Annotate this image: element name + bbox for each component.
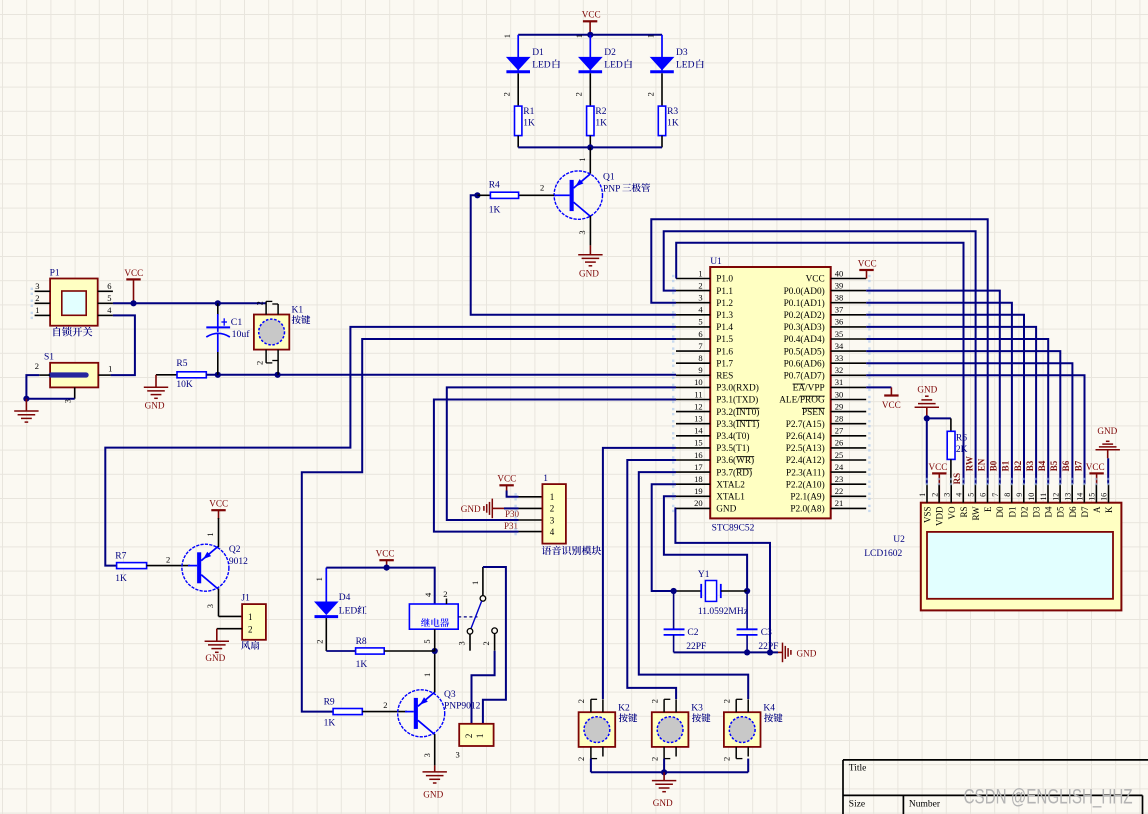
svg-text:2: 2 xyxy=(314,640,324,644)
junction xyxy=(215,300,221,306)
power VCC (U1 pin40) xyxy=(859,269,873,271)
pin 13 LCD (D6) xyxy=(1071,484,1073,502)
junction xyxy=(744,588,750,594)
resistor R2 1K xyxy=(589,73,591,106)
svg-text:16: 16 xyxy=(1100,493,1109,501)
svg-text:1: 1 xyxy=(475,734,485,739)
svg-text:P1.5: P1.5 xyxy=(716,335,733,345)
svg-text:P0.6(AD6): P0.6(AD6) xyxy=(784,358,825,369)
svg-text:40: 40 xyxy=(835,268,844,278)
svg-text:11: 11 xyxy=(694,389,702,399)
resistor R5 10K xyxy=(156,374,177,376)
pin 14 U1 (P3.4(T0)) xyxy=(676,435,710,437)
svg-text:Q3: Q3 xyxy=(444,690,456,700)
svg-text:P1.6: P1.6 xyxy=(716,347,733,357)
svg-text:GND: GND xyxy=(1097,426,1117,436)
wire XTAL1 to Y1 xyxy=(664,496,747,591)
svg-text:P0.2(AD2): P0.2(AD2) xyxy=(784,310,825,321)
svg-text:15: 15 xyxy=(1088,493,1097,501)
resistor R6 2K xyxy=(927,417,951,419)
svg-text:2: 2 xyxy=(721,757,731,761)
capacitor C1 10uf xyxy=(217,303,219,315)
svg-text:31: 31 xyxy=(835,377,844,387)
svg-text:5: 5 xyxy=(107,293,111,303)
svg-text:RS: RS xyxy=(952,473,962,485)
svg-text:24: 24 xyxy=(835,462,844,472)
svg-text:PSEN: PSEN xyxy=(802,408,825,418)
svg-text:D6: D6 xyxy=(1068,506,1078,517)
power VCC (LCD VDD) xyxy=(932,472,946,474)
svg-text:32: 32 xyxy=(835,365,844,375)
pin 3 U1 (P1.2) xyxy=(676,302,710,304)
svg-text:P3.0(RXD): P3.0(RXD) xyxy=(716,383,759,394)
svg-text:1: 1 xyxy=(108,363,112,373)
svg-text:1: 1 xyxy=(574,34,584,38)
resistor R4 1K xyxy=(474,192,480,198)
svg-text:XTAL2: XTAL2 xyxy=(716,480,745,490)
svg-text:2: 2 xyxy=(649,757,659,761)
junction xyxy=(130,300,136,306)
svg-text:1K: 1K xyxy=(667,119,679,129)
wire GND to LCD K xyxy=(1107,458,1109,484)
pin 1/4 P1 xyxy=(35,314,51,316)
svg-text:7: 7 xyxy=(698,341,702,351)
pin 1 S1 xyxy=(98,374,110,376)
svg-text:VO: VO xyxy=(947,506,957,519)
ground GND (R5) xyxy=(155,375,157,387)
svg-text:1K: 1K xyxy=(489,206,501,216)
svg-text:D2: D2 xyxy=(1019,507,1029,518)
svg-text:1: 1 xyxy=(314,577,324,581)
svg-text:LED-: LED- xyxy=(339,607,361,617)
wire U1 pin5 to R7 xyxy=(105,327,676,566)
pin 10 U1 (P3.0(RXD)) xyxy=(676,386,710,388)
svg-text:P2.3(A11): P2.3(A11) xyxy=(786,467,825,478)
svg-text:1K: 1K xyxy=(356,660,368,670)
connector U3 voice recognition module xyxy=(542,484,566,543)
pin 17 U1 (P3.7(RD)) xyxy=(676,471,710,473)
pins K3 top xyxy=(663,699,665,712)
svg-text:10uf: 10uf xyxy=(232,329,251,340)
svg-text:3: 3 xyxy=(456,750,460,760)
wire P1.0 to LCD RS xyxy=(676,243,963,484)
svg-text:P0.7(AD7): P0.7(AD7) xyxy=(784,371,825,382)
svg-text:34: 34 xyxy=(835,341,844,351)
pin 31 U1 (EA/VPP) xyxy=(831,386,867,388)
wire P0.6 to LCD D6 xyxy=(866,363,1072,484)
wire VCC net P1.5 xyxy=(113,302,266,304)
wire relay VCC rail xyxy=(326,568,434,604)
svg-text:3: 3 xyxy=(942,493,951,497)
svg-text:9012: 9012 xyxy=(229,557,248,567)
pin 25 U1 (P2.4(A12)) xyxy=(831,459,867,461)
pin 28 U1 (P2.7(A15)) xyxy=(831,423,867,425)
svg-text:10: 10 xyxy=(1027,493,1036,501)
svg-text:VCC: VCC xyxy=(124,268,143,278)
svg-text:3: 3 xyxy=(205,604,215,608)
svg-text:RW: RW xyxy=(971,506,981,521)
svg-text:Title: Title xyxy=(849,764,867,774)
svg-text:C1: C1 xyxy=(231,317,243,328)
pin 2 J1 wire xyxy=(217,628,242,630)
wire P0.7 to LCD D7 xyxy=(866,375,1084,484)
svg-text:2: 2 xyxy=(248,624,253,634)
pin 10 LCD (D3) xyxy=(1035,484,1037,502)
svg-text:P2.1(A9): P2.1(A9) xyxy=(790,492,824,503)
svg-text:U1: U1 xyxy=(710,257,722,267)
svg-text:D3: D3 xyxy=(1032,506,1042,517)
pin 16 LCD (K) xyxy=(1108,484,1110,502)
button K3 xyxy=(652,712,689,747)
wire P0.4 to LCD D4 xyxy=(866,339,1048,484)
wire U1 pin17 to K4 xyxy=(639,472,748,699)
svg-text:B2: B2 xyxy=(1013,460,1023,471)
pin 18 U1 (XTAL2) xyxy=(676,483,710,485)
svg-text:12: 12 xyxy=(1051,493,1060,501)
wire P0.1 to LCD D1 xyxy=(866,303,1012,485)
pin 24 U1 (P2.3(A11)) xyxy=(831,471,867,473)
svg-text:P1.0: P1.0 xyxy=(716,275,733,285)
wire Q2 to J1 xyxy=(219,615,243,617)
svg-text:RS: RS xyxy=(959,507,969,518)
svg-text:S1: S1 xyxy=(44,352,54,362)
svg-text:2: 2 xyxy=(721,699,731,703)
svg-text:B3: B3 xyxy=(1025,460,1035,471)
svg-text:3: 3 xyxy=(550,515,555,525)
capacitor C3 22PF xyxy=(746,591,748,629)
svg-text:29: 29 xyxy=(835,401,844,411)
svg-text:P0.3(AD3): P0.3(AD3) xyxy=(784,322,825,333)
svg-text:VCC: VCC xyxy=(582,10,601,20)
svg-text:A: A xyxy=(1092,506,1102,513)
svg-text:J1: J1 xyxy=(241,593,250,603)
svg-text:1: 1 xyxy=(550,492,555,502)
svg-text:2: 2 xyxy=(930,493,939,497)
svg-text:1: 1 xyxy=(646,34,656,38)
svg-text:18: 18 xyxy=(694,474,703,484)
svg-text:EN: EN xyxy=(977,458,987,471)
svg-text:P3.5(T1): P3.5(T1) xyxy=(716,443,749,454)
capacitor C2 22PF xyxy=(673,591,675,629)
svg-text:P1: P1 xyxy=(50,269,60,279)
ground GND (Q1) xyxy=(589,245,591,254)
diode D3 LED xyxy=(661,35,663,71)
svg-text:P0.1(AD1): P0.1(AD1) xyxy=(784,298,825,309)
svg-text:P3.7(RD): P3.7(RD) xyxy=(716,467,752,478)
pin 15 U1 (P3.5(T1)) xyxy=(676,447,710,449)
svg-text:P2.6(A14): P2.6(A14) xyxy=(786,431,825,442)
pin 22 U1 (P2.1(A9)) xyxy=(831,495,867,497)
svg-text:STC89C52: STC89C52 xyxy=(712,524,755,534)
svg-text:2: 2 xyxy=(645,92,655,96)
relay switch contact 2 xyxy=(492,628,498,634)
svg-text:4: 4 xyxy=(955,493,964,497)
svg-text:P1.7: P1.7 xyxy=(716,359,733,369)
svg-text:P3.4(T0): P3.4(T0) xyxy=(716,431,749,442)
wire P1 pin4 to S1 pin1 xyxy=(111,315,135,375)
svg-text:VCC: VCC xyxy=(1086,462,1105,472)
svg-text:2: 2 xyxy=(502,92,512,96)
svg-text:R1: R1 xyxy=(523,107,534,117)
svg-text:K: K xyxy=(1104,506,1114,513)
wire S1 pin2 to ground xyxy=(26,375,74,399)
svg-text:23: 23 xyxy=(835,474,844,484)
svg-text:VCC: VCC xyxy=(209,499,228,509)
svg-text:2: 2 xyxy=(35,293,39,303)
pin 3 LCD (VO) xyxy=(950,484,952,502)
power VCC (EA) xyxy=(890,387,892,395)
svg-text:Q1: Q1 xyxy=(603,172,615,182)
wire U1 pin6 to R9 xyxy=(302,339,676,712)
transistor Q1 PNP xyxy=(589,147,591,173)
svg-text:PNP: PNP xyxy=(603,184,620,194)
svg-text:D5: D5 xyxy=(1056,506,1066,517)
pin 6 U1 (P1.5) xyxy=(676,338,710,340)
pins K4 bottom xyxy=(735,747,737,759)
button K4 xyxy=(724,712,761,747)
junction xyxy=(671,588,677,594)
svg-text:1K: 1K xyxy=(595,119,607,129)
svg-text:D1: D1 xyxy=(1007,507,1017,518)
svg-text:GND: GND xyxy=(917,385,937,395)
pin 1 U1 (P1.0) xyxy=(676,278,710,280)
pin 12 LCD (D5) xyxy=(1059,484,1061,502)
wire R4 to P1.3 xyxy=(471,195,676,314)
svg-text:LED: LED xyxy=(676,61,695,71)
svg-text:14: 14 xyxy=(694,426,703,436)
svg-text:LED: LED xyxy=(604,61,623,71)
pin 3 Q2 xyxy=(218,589,220,617)
svg-text:P2.0(A8): P2.0(A8) xyxy=(790,504,824,515)
svg-text:21: 21 xyxy=(835,498,844,508)
wire K3 bottom to rail xyxy=(663,759,665,773)
pin 32 U1 (P0.7(AD7)) xyxy=(831,374,867,376)
relay switch arm xyxy=(471,601,482,629)
svg-text:P1.4: P1.4 xyxy=(716,323,733,333)
svg-text:16: 16 xyxy=(694,450,703,460)
pin 5 relay xyxy=(434,629,436,651)
svg-text:R8: R8 xyxy=(356,637,367,647)
svg-text:9: 9 xyxy=(1015,493,1024,497)
svg-text:28: 28 xyxy=(835,414,844,424)
junction xyxy=(587,32,593,38)
svg-text:P3.1(TXD): P3.1(TXD) xyxy=(716,395,758,406)
svg-text:4: 4 xyxy=(550,527,555,537)
svg-text:P0.5(AD5): P0.5(AD5) xyxy=(784,346,825,357)
title block xyxy=(843,759,1148,761)
power VCC (LCD A) xyxy=(1089,472,1103,474)
svg-text:8: 8 xyxy=(698,353,702,363)
svg-text:VDD: VDD xyxy=(935,506,945,526)
svg-text:U2: U2 xyxy=(893,535,905,545)
resistor R8 1K xyxy=(326,650,355,652)
svg-text:1: 1 xyxy=(470,581,480,585)
svg-text:2: 2 xyxy=(35,361,39,371)
pin 8 LCD (D1) xyxy=(1011,484,1013,502)
svg-text:35: 35 xyxy=(835,329,844,339)
junction xyxy=(924,415,930,421)
svg-text:1: 1 xyxy=(502,34,512,38)
svg-text:1: 1 xyxy=(543,474,548,484)
svg-text:P3.6(WR): P3.6(WR) xyxy=(716,455,754,466)
pin 39 U1 (P0.0(AD0)) xyxy=(831,290,867,292)
svg-text:VCC: VCC xyxy=(806,275,825,285)
svg-text:GND: GND xyxy=(716,505,736,515)
svg-text:14: 14 xyxy=(1076,493,1085,501)
svg-text:VSS: VSS xyxy=(923,507,933,524)
resistor R9 1K xyxy=(333,709,362,715)
wire button ground rail xyxy=(591,771,748,773)
svg-text:P2.2(A10): P2.2(A10) xyxy=(786,479,825,490)
svg-text:PNP9012: PNP9012 xyxy=(444,702,481,712)
wire GND to VSS xyxy=(926,418,928,484)
wire P1.1 to LCD RW xyxy=(664,231,976,484)
relay switch pole pin1 xyxy=(480,596,486,602)
pin 30 U1 (ALE/PROG) xyxy=(831,399,867,401)
pin 13 U1 (P3.3(INT1)) xyxy=(676,423,710,425)
relay coil xyxy=(409,604,458,629)
svg-text:6: 6 xyxy=(698,329,702,339)
svg-text:4: 4 xyxy=(423,592,433,597)
svg-text:ALE/PROG: ALE/PROG xyxy=(779,396,825,406)
pin 5 U1 (P1.4) xyxy=(676,326,710,328)
svg-text:4: 4 xyxy=(698,305,703,315)
resistor R1 1K xyxy=(517,73,519,106)
svg-text:GND: GND xyxy=(461,504,481,514)
svg-text:2: 2 xyxy=(576,699,586,703)
pins K4 top xyxy=(735,699,737,712)
wire P0.5 to LCD D5 xyxy=(866,351,1060,484)
svg-text:RES: RES xyxy=(716,372,733,382)
power VCC (LED rail) xyxy=(583,20,597,22)
wire P1.2 to LCD EN xyxy=(651,219,987,484)
junction xyxy=(215,372,221,378)
relay switch contact 3 xyxy=(467,629,473,635)
svg-text:13: 13 xyxy=(1063,493,1072,501)
pin 14 LCD (D7) xyxy=(1083,484,1085,502)
relay dashed link xyxy=(458,616,477,618)
junction xyxy=(767,649,773,655)
pin 2 relay xyxy=(446,599,448,605)
junction xyxy=(587,144,593,150)
power VCC (module) xyxy=(499,484,513,486)
svg-text:26: 26 xyxy=(835,438,844,448)
wire RES net (R5/C1/K1 to U1 pin9) xyxy=(206,374,676,376)
svg-text:P30: P30 xyxy=(505,509,520,519)
ground GND (buttons) xyxy=(663,772,665,780)
power VCC (relay rail) xyxy=(379,559,393,561)
svg-text:K1: K1 xyxy=(292,306,304,316)
junction xyxy=(432,648,438,654)
connector J1 (fan) xyxy=(242,604,266,640)
svg-text:1K: 1K xyxy=(115,574,127,584)
pin 11 LCD (D4) xyxy=(1047,484,1049,502)
wire XTAL2 to Y1 xyxy=(652,484,676,591)
svg-text:11: 11 xyxy=(1039,493,1048,501)
button K1 xyxy=(254,315,289,350)
svg-text:B6: B6 xyxy=(1061,460,1071,471)
pin 20 U1 (GND) xyxy=(676,507,710,509)
pin 6 LCD (E) xyxy=(987,484,989,502)
svg-text:2: 2 xyxy=(481,641,491,645)
pin 2 S1 xyxy=(39,374,50,376)
wire K4 bottom to rail xyxy=(747,759,749,773)
svg-text:LCD1602: LCD1602 xyxy=(864,549,902,559)
svg-text:2: 2 xyxy=(464,734,474,739)
svg-text:P1.3: P1.3 xyxy=(716,311,733,321)
svg-text:CSDN @ENGLISH_HHZ: CSDN @ENGLISH_HHZ xyxy=(964,784,1133,808)
svg-text:11.0592MHz: 11.0592MHz xyxy=(698,607,748,617)
svg-text:P0.0(AD0): P0.0(AD0) xyxy=(784,286,825,297)
pin 36 U1 (P0.3(AD3)) xyxy=(831,326,867,328)
ground GND (crystal, rotated) xyxy=(778,651,783,653)
svg-text:VCC: VCC xyxy=(497,474,516,484)
svg-text:D2: D2 xyxy=(604,48,616,58)
svg-text:R5: R5 xyxy=(176,359,187,369)
svg-text:GND: GND xyxy=(205,653,225,663)
svg-text:R2: R2 xyxy=(595,107,606,117)
pin 5 LCD (RW) xyxy=(974,484,976,502)
svg-text:P3.3(INT1): P3.3(INT1) xyxy=(716,419,759,430)
svg-text:3: 3 xyxy=(422,753,432,757)
pins K3 bottom xyxy=(663,747,665,759)
pin 29 U1 (PSEN) xyxy=(831,411,867,413)
svg-text:K4: K4 xyxy=(763,704,775,714)
svg-text:1: 1 xyxy=(577,158,587,162)
svg-text:1K: 1K xyxy=(523,119,535,129)
svg-text:GND: GND xyxy=(423,790,443,800)
svg-text:1: 1 xyxy=(205,532,215,536)
wire U1 pin10 to module pin3 (P30) xyxy=(447,387,676,520)
connector (relay output) xyxy=(459,724,493,746)
svg-text:22: 22 xyxy=(835,486,844,496)
svg-text:3: 3 xyxy=(698,293,702,303)
svg-text:1K: 1K xyxy=(324,718,336,728)
wire EA/VPP to VCC xyxy=(866,386,891,388)
svg-text:2: 2 xyxy=(443,589,447,599)
junction xyxy=(23,396,29,402)
pin 34 U1 (P0.5(AD5)) xyxy=(831,350,867,352)
pin 19 U1 (XTAL1) xyxy=(676,495,710,497)
svg-text:33: 33 xyxy=(835,353,844,363)
pin 40 U1 (VCC) xyxy=(831,278,867,280)
pin 21 U1 (P2.0(A8)) xyxy=(831,507,867,509)
wire VCC to module pin1 xyxy=(507,491,519,497)
junction xyxy=(744,649,750,655)
svg-text:B5: B5 xyxy=(1049,460,1059,471)
svg-text:VCC: VCC xyxy=(858,258,877,268)
svg-text:38: 38 xyxy=(835,293,844,303)
LCD U2 LCD1602 body xyxy=(921,503,1122,611)
svg-text:R4: R4 xyxy=(489,180,500,190)
svg-text:2: 2 xyxy=(574,92,584,96)
pin 9 LCD (D2) xyxy=(1023,484,1025,502)
svg-text:B4: B4 xyxy=(1037,460,1047,471)
svg-text:Number: Number xyxy=(909,800,941,810)
svg-text:GND: GND xyxy=(653,798,673,808)
svg-text:6: 6 xyxy=(107,281,111,291)
svg-text:GND: GND xyxy=(579,269,599,279)
diode D1 LED xyxy=(517,35,519,71)
svg-text:2: 2 xyxy=(383,700,387,710)
wire P0.2 to LCD D2 xyxy=(866,315,1024,485)
junction xyxy=(275,372,281,378)
svg-text:D3: D3 xyxy=(676,48,688,58)
svg-text:2: 2 xyxy=(254,361,264,365)
pin 3 Q3 xyxy=(434,734,436,765)
svg-text:Size: Size xyxy=(849,800,865,810)
svg-text:VCC: VCC xyxy=(882,400,901,410)
